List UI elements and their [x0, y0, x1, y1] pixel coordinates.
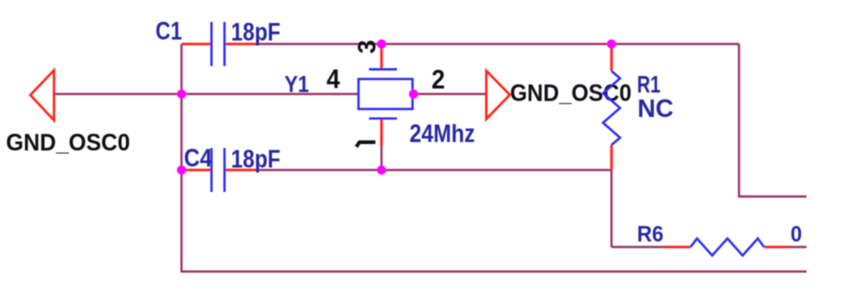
- capacitor C1 pin left: [182, 43, 212, 46]
- svg-text:R6: R6: [637, 222, 664, 247]
- wire top row (C1 to right corner): [254, 43, 739, 45]
- crystal Y1 pin 3 stub: [380, 44, 383, 70]
- junction node left main row: [177, 89, 186, 98]
- junction node R1 top: [607, 39, 616, 48]
- wire top row corner stub: [182, 43, 186, 45]
- wire bottom row: [181, 270, 807, 272]
- crystal Y1 bottom plate: [369, 117, 397, 119]
- wire crystal pin1 stub: [380, 146, 382, 170]
- wire right vertical drop: [739, 44, 807, 197]
- port GND_OSC0 left triangle: [30, 70, 54, 120]
- junction node crystal pin 3: [377, 39, 386, 48]
- resistor R1 pin bottom: [610, 145, 613, 170]
- svg-text:NC: NC: [638, 95, 674, 123]
- resistor R1 pin top: [610, 44, 613, 71]
- capacitor C1 plates: [212, 22, 225, 66]
- svg-text:24Mhz: 24Mhz: [410, 120, 476, 148]
- svg-text:C4: C4: [184, 145, 212, 173]
- resistor R6 pin left: [663, 246, 691, 249]
- svg-text:C1: C1: [156, 18, 183, 46]
- wire left vertical: [180, 44, 182, 272]
- capacitor C4 pin left: [181, 169, 212, 172]
- svg-text:Y1: Y1: [285, 71, 310, 97]
- capacitor C1 pin right: [225, 43, 255, 46]
- crystal Y1 body: [359, 79, 413, 109]
- svg-text:2: 2: [432, 65, 446, 95]
- wire main row right (crystal pin 2 to right port): [413, 93, 487, 95]
- crystal Y1 top plate: [369, 68, 397, 70]
- resistor R6 zigzag: [691, 239, 765, 256]
- wire R6 row right: [790, 246, 807, 248]
- port GND_OSC0 right triangle: [486, 71, 510, 119]
- svg-text:4: 4: [327, 64, 341, 94]
- capacitor C4 plates: [212, 148, 225, 192]
- wire main row left (port to crystal pin 4): [54, 93, 359, 95]
- svg-text:3: 3: [354, 40, 382, 54]
- wire C4 row (to R1 bottom corner): [254, 170, 612, 247]
- junction node left C4 row: [177, 165, 186, 174]
- resistor R1 zigzag: [603, 71, 620, 145]
- junction node crystal pin 1: [377, 165, 386, 174]
- pin number 1 (rotated): [356, 142, 375, 147]
- resistor R6 pin right: [764, 246, 790, 249]
- crystal Y1 pin 1 stub: [380, 119, 383, 147]
- junction node crystal pin 2: [409, 89, 418, 98]
- svg-text:18pF: 18pF: [231, 19, 281, 47]
- svg-text:0: 0: [791, 222, 803, 247]
- capacitor C4 pin right: [225, 169, 255, 172]
- wire R6 row left: [612, 246, 664, 248]
- svg-text:18pF: 18pF: [231, 146, 281, 174]
- svg-text:GND_OSC0: GND_OSC0: [6, 130, 130, 157]
